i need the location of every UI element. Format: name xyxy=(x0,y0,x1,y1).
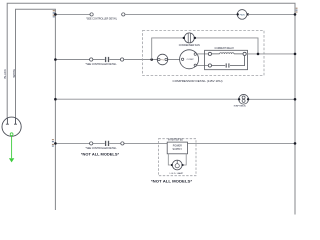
motor M1 (top circle) xyxy=(237,10,247,20)
junction branch D right xyxy=(294,142,297,145)
AC plug P0 xyxy=(2,117,21,136)
wire branch C xyxy=(55,98,295,100)
junction fan-loop right xyxy=(257,53,260,56)
svg-text:CONDENSER FAN: CONDENSER FAN xyxy=(179,43,200,47)
heater/evap load circle xyxy=(239,94,249,104)
svg-text:*SEE CONTROLLER DETAIL: *SEE CONTROLLER DETAIL xyxy=(86,18,118,21)
svg-text:L.E.D. LAMP: L.E.D. LAMP xyxy=(170,172,184,175)
wire power supply to lamp left xyxy=(168,154,172,165)
terminal dot fan right xyxy=(194,37,196,39)
connector J1 on branch A xyxy=(90,13,94,16)
connector J6 on branch D xyxy=(121,142,125,145)
svg-text:FAN: FAN xyxy=(240,13,246,16)
terminal dot heater right xyxy=(247,98,249,100)
svg-text:*NOT ALL MODELS*: *NOT ALL MODELS* xyxy=(151,179,192,184)
wire branch D xyxy=(55,142,295,144)
wire L2 neutral: left vertical up, across, down main bus xyxy=(16,9,56,210)
terminal dot lamp left xyxy=(171,164,173,166)
wire relay output to right wire xyxy=(246,53,295,55)
junction at bus branch B xyxy=(54,58,57,61)
terminal dot M1 left xyxy=(237,13,239,15)
wire comp to relay top xyxy=(197,53,209,55)
connector J2 on branch A xyxy=(121,13,125,16)
connector J5 on branch D xyxy=(89,142,93,145)
relay bottom row wire xyxy=(212,56,245,66)
svg-text:POWER: POWER xyxy=(173,146,182,148)
LED dashed box xyxy=(159,139,197,176)
junction branch A right xyxy=(294,13,297,16)
condenser fan motor xyxy=(184,33,194,43)
relay coil xyxy=(212,53,244,54)
junction at bus branch D xyxy=(54,142,57,145)
svg-text:SUPPLY: SUPPLY xyxy=(173,149,183,151)
connector J3 on branch B xyxy=(89,58,93,61)
junction branch B right xyxy=(294,53,297,56)
wire comp to relay bottom xyxy=(197,65,209,67)
terminal dot fan left xyxy=(183,37,185,39)
svg-text:*SEE CONTROLLER DETAIL: *SEE CONTROLLER DETAIL xyxy=(86,147,118,150)
relay terminal top-left xyxy=(208,52,211,55)
ground pin circle (green) xyxy=(10,133,13,136)
compressor detail dashed box xyxy=(143,31,265,76)
svg-text:INVERTER BD: INVERTER BD xyxy=(168,140,183,142)
ground wire (green) xyxy=(11,136,13,159)
svg-text:COMP: COMP xyxy=(187,59,195,61)
junction at bus branch C xyxy=(54,98,57,101)
connector pin stack at bus, branch D xyxy=(52,139,54,146)
wire branch A left segment xyxy=(55,13,89,15)
junction node fan-loop left xyxy=(150,58,153,61)
svg-text:WHITE: WHITE xyxy=(13,69,16,78)
svg-text:COMPRESSOR DETAIL (115V 1PH): COMPRESSOR DETAIL (115V 1PH) xyxy=(173,79,223,83)
svg-text:CURRENT RELAY: CURRENT RELAY xyxy=(215,46,235,50)
svg-text:*NOT ALL MODELS*: *NOT ALL MODELS* xyxy=(81,151,119,156)
compressor motor U1 xyxy=(180,50,199,69)
relay terminal top-right xyxy=(243,52,246,55)
disconnect P1 on branch B xyxy=(106,57,109,62)
wire branch B xyxy=(55,59,179,61)
connector J4 on branch B xyxy=(120,58,124,61)
disconnect P2 on branch D xyxy=(106,141,109,146)
svg-text:BLACK: BLACK xyxy=(4,69,7,79)
LED lamp xyxy=(172,160,182,170)
svg-text:PTC: PTC xyxy=(161,59,165,61)
terminal dot lamp right xyxy=(181,164,183,166)
terminal dot M1 right xyxy=(247,13,249,15)
wire branch A to right wire xyxy=(248,13,295,15)
power supply box xyxy=(167,142,187,154)
junction at bus branch A xyxy=(54,13,57,16)
wire condenser fan loop xyxy=(152,38,258,60)
wire branch A right segment xyxy=(125,13,237,15)
connector pin stack at bus top xyxy=(53,10,55,17)
terminal dot heater left xyxy=(238,98,240,100)
relay terminal bottom-left xyxy=(208,64,211,67)
wire L1 hot: left vertical, top horizontal, right vertical xyxy=(7,3,295,214)
wire power supply to lamp right xyxy=(182,154,186,165)
PTC starter xyxy=(157,54,168,65)
ground arrow (green) xyxy=(9,158,14,162)
svg-text:*SEE CONTROLLER DETAIL: *SEE CONTROLLER DETAIL xyxy=(86,63,118,66)
svg-text:EVAP FAN(S): EVAP FAN(S) xyxy=(234,105,246,108)
disconnect in relay xyxy=(226,63,229,67)
junction branch C right xyxy=(294,98,297,101)
connector pin stack at right wire top xyxy=(296,8,298,13)
current relay box xyxy=(205,50,248,69)
